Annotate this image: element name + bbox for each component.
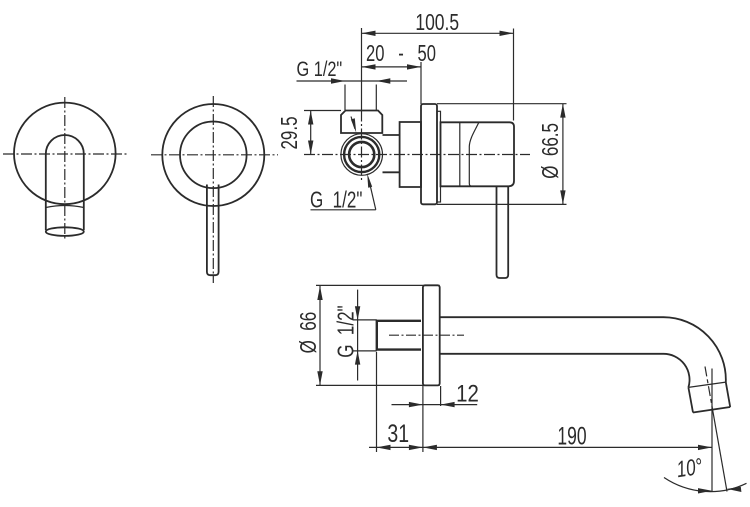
vertical centerline: [212, 96, 214, 283]
port bore: [349, 142, 374, 167]
svg-text:29.5: 29.5: [278, 116, 303, 149]
dimension line 29.5: [310, 111, 312, 155]
extension line plate top: [437, 103, 567, 105]
extension line plate bottom: [437, 203, 567, 205]
dimension line 12: [392, 404, 478, 406]
arc arrow left: [698, 488, 712, 493]
dimension line dia 66: [319, 286, 321, 385]
outlet axis line: [705, 367, 713, 413]
angle arc 10 deg: [664, 478, 747, 492]
handle inner circle: [180, 122, 247, 189]
leader arrow in block: [351, 117, 355, 130]
arc arrow right: [727, 487, 742, 492]
extension lines of thread: [344, 85, 346, 111]
vertical centerline: [64, 97, 66, 240]
dimension line 20-50: [362, 66, 422, 68]
svg-text:12: 12: [456, 380, 479, 407]
extension line plate bottom: [316, 384, 440, 386]
dimension line G 1/2 spout: [357, 290, 359, 381]
spout tube arc: [46, 135, 84, 154]
dimension line dia 66.5: [562, 104, 564, 205]
outlet face: [693, 407, 730, 413]
svg-text:20 - 50: 20 - 50: [366, 42, 436, 67]
svg-text:Ø 66.5: Ø 66.5: [539, 123, 564, 179]
outlet right edge: [726, 382, 730, 407]
escutcheon circle: [14, 103, 116, 205]
port ring: [344, 137, 379, 172]
leader line to port: [369, 180, 376, 210]
svg-text:10°: 10°: [675, 455, 704, 483]
cartridge housing: [400, 122, 421, 187]
collar ring: [437, 111, 441, 202]
spout centerline: [389, 334, 464, 336]
trim body: [441, 122, 515, 186]
spout collar curve: [46, 206, 84, 208]
horizontal centerline of mixer body: [304, 154, 530, 156]
horizontal centerline: [151, 154, 278, 156]
inlet block: [341, 111, 382, 134]
horizontal centerline: [3, 153, 127, 155]
handle lever: [207, 185, 219, 276]
neck top: [383, 134, 400, 136]
wall plate side view: [423, 285, 440, 385]
vertical centerline through port: [361, 111, 363, 181]
inner bend arc: [664, 354, 690, 388]
vertical extension line above inlet: [361, 28, 363, 111]
svg-text:G 1/2": G 1/2": [334, 305, 359, 357]
svg-text:100.5: 100.5: [415, 11, 459, 36]
sleeve joint line: [459, 122, 461, 186]
escutcheon outer circle: [162, 104, 264, 206]
arrows 31: [377, 445, 391, 450]
bottom dimension line: [369, 446, 712, 448]
spout outlet ellipse: [46, 227, 84, 236]
extension line at stub left: [376, 352, 378, 452]
svg-text:190: 190: [557, 421, 586, 450]
dimension line 100.5: [362, 32, 514, 34]
svg-text:31: 31: [387, 420, 409, 448]
extension line at wall: [420, 62, 422, 104]
port outer circle: [341, 134, 383, 176]
svg-text:G 1/2": G 1/2": [297, 58, 343, 82]
outlet left edge: [688, 387, 693, 412]
extension line plate top: [316, 284, 440, 286]
spout tube left side: [45, 154, 47, 230]
extension line block top: [304, 110, 341, 112]
threaded stub: [377, 321, 421, 350]
extension line stub top: [353, 319, 377, 321]
extension line at wall: [422, 385, 424, 452]
spout tube bottom edge: [440, 353, 664, 355]
outer bend arc: [664, 317, 726, 382]
spout tube top edge: [440, 316, 664, 318]
underline of label: [311, 209, 376, 211]
joint line: [688, 382, 725, 387]
svg-text:Ø 66: Ø 66: [297, 312, 322, 354]
extension line right (trim front): [513, 29, 515, 121]
handle lever side view: [497, 186, 509, 278]
extension line stub bottom: [353, 350, 377, 352]
spout tube right side: [83, 154, 85, 230]
neck bottom: [383, 171, 400, 173]
handle dome contour: [469, 122, 479, 186]
dimension line G 1/2 top: [297, 80, 408, 82]
extension line plate front: [440, 386, 442, 406]
arrows 190: [423, 445, 437, 450]
vertical reference line: [711, 369, 713, 492]
wall plate: [421, 104, 437, 204]
